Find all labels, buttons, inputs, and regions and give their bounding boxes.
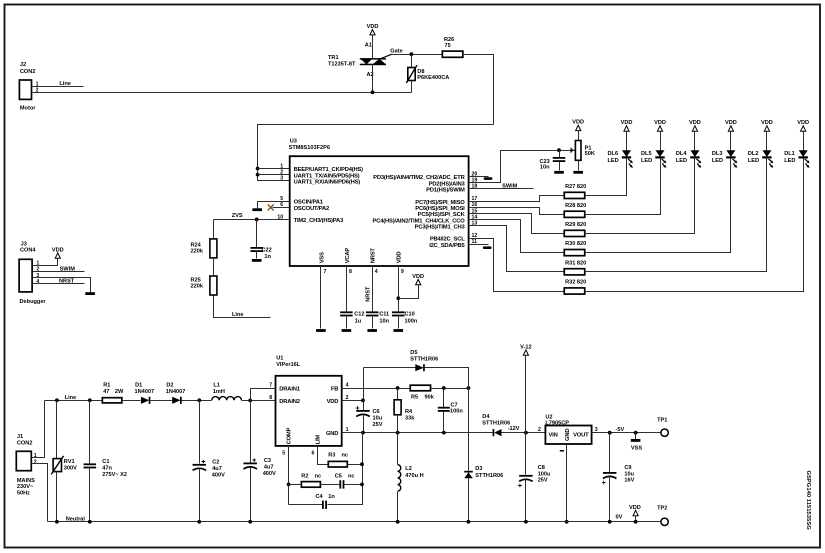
wire Neutral 0V row [48,521,661,523]
svg-text:1n: 1n [328,494,335,500]
svg-text:NRST: NRST [365,286,371,302]
ground VSS [631,439,641,442]
svg-text:50K: 50K [585,151,595,157]
svg-text:LED: LED [641,158,652,164]
wire FB row left part [342,388,411,390]
svg-text:VIPer16L: VIPer16L [276,362,301,368]
svg-text:VSS: VSS [631,445,642,451]
wire VDD to DL3 anode [730,132,732,151]
svg-text:D4: D4 [482,414,490,420]
wire pin13 to R31 [469,226,565,272]
junction C6 bottom [361,431,365,435]
power symbol VDD [572,120,584,131]
svg-text:25V: 25V [538,478,548,484]
wire R30 to LED cathode [585,159,731,253]
wire D5 anode to VDD pin [363,368,365,401]
power symbol VDD [761,120,773,131]
wire R26 to vertical [463,55,494,125]
junction C5 node [360,483,364,487]
svg-text:J1: J1 [17,434,23,440]
junction C9 bottom on 0V row [608,520,612,524]
junction C2 top [197,398,201,402]
ground at C10 [394,329,404,332]
potentiometer P1 wiper arrow [571,148,576,152]
inductor L2 [398,465,401,492]
wire RV1 bottom lead [56,472,58,522]
wire pin16 to R28 [469,208,565,215]
capacitor C7 [438,407,450,412]
svg-text:90k: 90k [425,394,435,400]
svg-text:U2: U2 [545,414,552,420]
svg-text:SWIM: SWIM [60,266,76,272]
capacitor C10 [392,311,405,316]
svg-text:J2: J2 [20,62,26,68]
svg-text:UART1_TX/AIN5/PD5(HS): UART1_TX/AIN5/PD5(HS) [294,173,360,179]
svg-text:4: 4 [346,383,349,389]
svg-text:R1: R1 [103,383,110,389]
svg-text:STTH1R06: STTH1R06 [410,357,438,363]
svg-text:C9: C9 [624,465,631,471]
svg-text:VDD: VDD [397,252,403,264]
wire FB row right part [431,388,469,390]
svg-text:DL1: DL1 [784,151,795,157]
svg-text:C8: C8 [538,465,545,471]
wire C11 to ground [372,316,374,329]
capacitor C1 [84,463,97,468]
svg-text:nc: nc [348,474,355,480]
power symbol VDD [797,120,809,131]
svg-text:100n: 100n [450,408,463,414]
wire J1 pin1 to Line row [32,401,45,458]
svg-text:220k: 220k [191,248,204,254]
svg-text:R4: R4 [405,409,413,415]
wire R29 to LED cathode [585,159,695,234]
wire C4 to node and up to GND row [328,433,363,505]
junction C7 top [442,386,446,390]
wire C12 to ground [346,316,348,329]
svg-text:GSPG140 1151535SG: GSPG140 1151535SG [805,471,811,531]
wire L1 to DRAIN2 [242,400,276,402]
power symbol VDD at 0V row [633,510,638,515]
wire C6 bottom lead [363,415,365,433]
wire to VDD symbol [399,285,419,299]
svg-text:4: 4 [36,279,39,285]
junction L2 bottom on 0V row [396,520,400,524]
test point TP2 [661,518,668,525]
ground at C11 [367,329,377,332]
connector J3 [19,259,32,292]
capacitor C8 [518,475,533,487]
wire C23 top lead [559,151,561,158]
svg-text:Neutral: Neutral [66,517,86,523]
svg-text:UART1_RX/AIN6/PD6(HS): UART1_RX/AIN6/PD6(HS) [294,179,361,185]
wire VDD to DL2 anode [766,132,768,151]
LED DL3 [726,150,737,168]
junction C2 bottom on 0V row [197,520,201,524]
ground at C23 [554,171,564,174]
svg-text:Motor: Motor [20,106,36,112]
wire C10 to ground [398,316,400,329]
svg-text:R5: R5 [411,394,418,400]
junction C3 bottom on 0V row [248,520,252,524]
ground at OSCIN [252,208,262,211]
wire C1 top lead [89,401,91,464]
svg-text:DL3: DL3 [712,151,723,157]
wire C8 top lead [525,433,527,475]
svg-text:VSS: VSS [319,252,325,263]
wire D5 cathode to FB [425,368,469,389]
diode D5 [415,364,425,371]
capacitor C11 [366,311,379,316]
svg-text:PC4(HS)/AIN2/TIM1_CH4/CLK_CCO: PC4(HS)/AIN2/TIM1_CH4/CLK_CCO [373,218,466,224]
wire C2 bottom lead [199,469,201,522]
junction C23 / wiper [557,148,561,152]
svg-text:NRST: NRST [371,248,377,264]
connector J2 [19,80,31,99]
svg-text:D5: D5 [410,350,417,356]
wire OSCIN to ground [258,202,290,209]
junction gate wire / D8 [410,52,414,56]
no-connect X on OSCOUT [268,204,274,210]
resistor R25 [210,276,217,295]
wire D2 to L1 [182,400,212,402]
svg-text:10u: 10u [373,416,383,422]
svg-text:C2: C2 [212,460,219,466]
resistor R30 [564,250,585,256]
svg-text:R30 820: R30 820 [565,241,586,247]
junction C22 on ZVS row [255,218,259,222]
wire ZVS to R24 [213,220,215,239]
wire pin11 stub [469,244,489,246]
svg-text:CON2: CON2 [20,69,36,75]
svg-text:P6KE400CA: P6KE400CA [417,75,449,81]
svg-text:MAINS: MAINS [17,478,35,484]
svg-text:-12V: -12V [508,426,520,432]
svg-text:SWIM: SWIM [502,184,518,190]
diode D3 [464,471,473,478]
wire pin17 to R27 [469,196,565,202]
wire C3 top lead [250,401,252,463]
svg-text:7: 7 [324,269,327,275]
svg-text:47: 47 [103,389,109,395]
svg-text:STTH1R06: STTH1R06 [482,420,510,426]
svg-text:FB: FB [331,386,338,392]
svg-text:Line: Line [65,395,77,401]
LED DL1 [799,150,810,168]
capacitor C9 [602,472,617,484]
junction U2 GND on 0V row [565,520,569,524]
wire C8 bottom lead [525,480,527,522]
wire pin15 to R29 [469,214,565,234]
junction pin1 [256,167,260,171]
wire R24 to R25 [213,258,215,277]
diode D1 [141,397,151,404]
svg-text:4: 4 [375,269,378,275]
wire C23 to ground [559,162,561,171]
junction RV1 top [55,398,59,402]
resistor R5 [410,385,430,391]
svg-text:2: 2 [538,427,541,433]
svg-text:LED: LED [784,158,795,164]
connector J1 [16,451,31,470]
power symbol VDD [412,274,424,285]
svg-text:I2C_SDA/PB5: I2C_SDA/PB5 [429,243,465,249]
wire D8 bottom lead [411,81,413,93]
wire pin12 to R32 [469,239,565,292]
resistor R2 [301,482,320,488]
resistor R29 [564,230,585,236]
svg-text:400V: 400V [212,472,225,478]
power symbol VDD [689,120,701,131]
wire RV1 top lead [56,401,58,459]
wire MCU pin1 stub [258,168,290,170]
triac TR1 [360,54,392,65]
svg-text:R25: R25 [191,278,201,284]
wire Line row left [45,400,103,402]
junction TR1 A2 on Motor row [371,90,375,94]
svg-text:GND: GND [326,431,338,437]
svg-text:230V~: 230V~ [17,484,34,490]
svg-text:C12: C12 [354,312,364,318]
svg-text:2: 2 [34,459,37,465]
svg-text:LED: LED [712,158,723,164]
svg-text:1N4007: 1N4007 [166,389,186,395]
svg-text:Gate: Gate [390,48,402,54]
svg-text:C22: C22 [262,247,272,253]
wire -5V row [592,432,661,434]
svg-text:Line: Line [232,312,244,318]
svg-text:R3: R3 [328,453,335,459]
svg-text:ZVS: ZVS [232,213,243,219]
LED DL4 [690,150,701,168]
svg-text:3: 3 [280,176,283,182]
wire C1 bottom lead [89,468,91,522]
junction D3 bottom on 0V row [467,520,471,524]
wire TIM2_CH3 ZVS row [214,219,290,221]
svg-text:BEEP/UART1_CK/PD4(HS): BEEP/UART1_CK/PD4(HS) [294,167,364,173]
svg-text:400V: 400V [263,471,276,477]
wire VSS pin to ground [320,267,322,329]
regulator U1 VIPer16L [276,376,342,446]
svg-text:CON2: CON2 [17,440,33,446]
wire R28 to LED cathode [585,159,661,215]
regulator U2 L7905CP [545,426,591,445]
svg-text:LED: LED [676,158,687,164]
ground at J3 pin3 [85,292,95,295]
wire C3 bottom lead [250,468,252,522]
wire VDD to DL5 anode [660,132,662,151]
ground at VSS [316,329,326,332]
svg-text:VDD: VDD [327,399,339,405]
wire VDD to TR1 A1 [372,35,374,59]
wire pin20 stub [469,176,489,178]
svg-text:PC5(HS)/SPI_SCK: PC5(HS)/SPI_SCK [418,212,466,218]
wire D5 anode lead [364,367,416,369]
svg-text:2W: 2W [115,389,124,395]
wire C6 top lead [363,401,365,411]
svg-text:1n: 1n [264,254,271,260]
wire P1 to ground [578,161,580,171]
svg-text:VDD: VDD [629,505,641,511]
svg-text:DL6: DL6 [608,151,619,157]
resistor R1 [102,398,122,403]
svg-text:7: 7 [269,383,272,389]
svg-text:VIN: VIN [549,432,558,438]
wire VSS stub [635,433,637,440]
wire C22 top lead [256,220,258,248]
svg-text:75: 75 [445,43,451,49]
svg-text:R31 820: R31 820 [565,260,586,266]
svg-text:VOUT: VOUT [573,432,589,438]
microcontroller U3 [290,156,469,266]
ground at C12 [342,329,352,332]
svg-text:TP1: TP1 [657,418,667,424]
svg-text:300V: 300V [64,466,77,472]
wire R4 top lead [397,389,399,400]
svg-text:TIM2_CH3/(HS)PA3: TIM2_CH3/(HS)PA3 [294,218,344,224]
svg-text:1N4007: 1N4007 [135,389,155,395]
svg-text:6: 6 [312,451,315,457]
junction R3 node [360,462,364,466]
varistor RV1 [51,456,63,475]
test point TP1 [661,429,668,436]
svg-text:PC3(HS)/TIM1_CH3: PC3(HS)/TIM1_CH3 [415,224,466,230]
wire R3 to node [348,464,363,466]
LED DL6 [622,150,633,168]
svg-text:DRAIN2: DRAIN2 [279,399,300,405]
svg-text:1: 1 [280,163,283,169]
svg-text:10n: 10n [540,165,550,171]
pin number 1 of U2 [560,450,564,452]
capacitor C22 [250,247,263,252]
wire LIM pin to R3 [318,446,329,465]
wire VDD pin row [342,400,364,402]
svg-text:Line: Line [59,81,71,87]
wire D8 top lead [411,55,413,68]
svg-text:8: 8 [349,269,352,275]
resistor R28 [564,211,585,217]
wire J3 pin3 to ground [33,278,91,293]
stub marker pin11 [483,246,492,249]
svg-text:220k: 220k [191,284,204,290]
svg-text:C1: C1 [102,459,109,465]
ground at C22 [252,259,262,262]
wire J3 pin2 SWIM stub [33,271,85,273]
wire VDD to P1 [578,131,580,141]
svg-text:R27 820: R27 820 [565,184,586,190]
resistor R24 [210,239,217,258]
svg-text:nc: nc [342,453,349,459]
wire D3 anode lead [468,479,470,522]
svg-text:C10: C10 [405,312,415,318]
power symbol V-12 [520,344,532,355]
diode D4 [493,429,502,436]
wire C9 bottom lead [609,477,611,522]
svg-text:D1: D1 [135,383,142,389]
wire C2 top lead [199,401,201,464]
wire J2 pin1 Line stub [32,86,84,88]
wire GND row [342,432,494,434]
wire OSCOUT stub [273,207,290,209]
svg-text:COMP: COMP [287,427,293,444]
svg-text:R29 820: R29 820 [565,222,586,228]
svg-text:-5V: -5V [616,427,625,433]
wire C9 top lead [609,433,611,473]
svg-text:LED: LED [608,158,619,164]
wire VDD to DL1 anode [803,132,805,151]
junction DRAIN / C3 [248,399,252,403]
wire J3 pin4 NRST stub [33,283,85,285]
wire pin18 SWIM stub [469,188,534,190]
svg-text:C3: C3 [264,458,271,464]
wire VDD to DL6 anode [626,132,628,151]
svg-text:4u7: 4u7 [264,465,274,471]
svg-text:PD2(HS)/AIN3: PD2(HS)/AIN3 [429,181,466,187]
svg-text:1mH: 1mH [213,389,225,395]
svg-text:L1: L1 [213,383,220,389]
potentiometer P1 [575,141,581,161]
capacitor C12 [340,311,353,316]
svg-text:C6: C6 [373,409,380,415]
wire VCAP to C12 [346,267,348,312]
svg-text:C11: C11 [379,312,389,318]
power symbol VDD [621,120,633,131]
svg-text:D3: D3 [475,466,482,472]
stub marker pin20 [484,177,493,180]
junction VDD on 0V row [634,520,638,524]
svg-text:DL2: DL2 [748,151,759,157]
wire R4 bottom lead [397,415,399,433]
wire COMP to R2 [289,484,302,486]
capacitor C23 [553,157,566,162]
junction pin2 [256,173,260,177]
svg-text:STM8S103F2P6: STM8S103F2P6 [289,145,330,151]
junction C8 bottom on 0V row [524,520,528,524]
power symbol VDD [52,247,64,258]
wire MCU pin2 stub [258,174,290,176]
svg-text:VCAP: VCAP [345,248,351,264]
capacitor C2 [193,460,207,471]
svg-text:R28 820: R28 820 [565,203,586,209]
capacitor C6 [356,406,370,416]
wire C7 bottom lead [443,412,445,433]
wire J3 pin1 to VDD [33,259,58,266]
junction C1 top [88,398,92,402]
wire D4 to U2 VIN [502,432,546,434]
svg-text:0V: 0V [616,515,623,521]
wire V-12 down [525,356,527,433]
junction C1 bottom on 0V row [88,520,92,524]
svg-text:100u: 100u [538,471,551,477]
svg-text:2: 2 [280,169,283,175]
svg-text:C5: C5 [335,474,342,480]
svg-text:1: 1 [34,453,37,459]
svg-text:R2: R2 [301,474,308,480]
svg-text:NRST: NRST [59,278,75,284]
svg-text:PD3(HS)/AIN4/TIM2_CH2/ADC_ETR: PD3(HS)/AIN4/TIM2_CH2/ADC_ETR [373,175,465,181]
wire VDD to DL4 anode [694,132,696,151]
junction C6 top [361,399,365,403]
wire J2 pin2 to triac A2 and D8 row [32,92,412,94]
junction VSS stub [634,431,638,435]
LED DL2 [762,150,773,168]
svg-text:CON4: CON4 [20,248,36,254]
svg-text:PD1(HS)/SWIM: PD1(HS)/SWIM [426,188,465,194]
junction D5 cathode / D3 [467,386,471,390]
LED DL5 [655,150,666,168]
svg-text:275V~ X2: 275V~ X2 [102,472,127,478]
svg-text:16V: 16V [624,478,634,484]
